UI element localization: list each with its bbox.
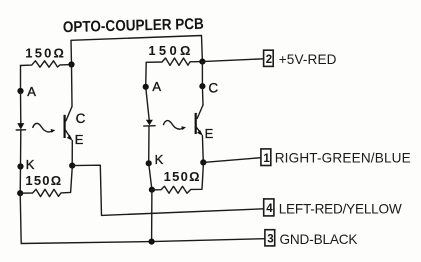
node K (right circuit)	[146, 160, 152, 166]
node junction dot (K branch / R4 left, right circuit)	[149, 187, 155, 193]
emitter lead with arrow	[196, 127, 201, 134]
wire node K to R4	[149, 163, 152, 189]
svg-text:RIGHT-GREEN/BLUE: RIGHT-GREEN/BLUE	[275, 150, 411, 165]
wire left output to terminal 4	[72, 165, 264, 215]
svg-text:150Ω: 150Ω	[25, 173, 61, 188]
collector lead from +5V junction	[201, 62, 203, 87]
wire LED cathode to node K	[20, 130, 22, 167]
svg-text:LEFT-RED/YELLOW: LEFT-RED/YELLOW	[279, 201, 402, 216]
wire left branch to ground rail	[20, 193, 265, 243]
svg-text:150Ω: 150Ω	[148, 43, 190, 58]
wire left branch top (right circuit)	[145, 62, 148, 87]
wire right circuit bottom to ground rail	[151, 190, 153, 242]
wire node K to R2	[19, 167, 21, 194]
svg-text:3: 3	[267, 234, 273, 246]
light coupling arrow (right opto-coupler)	[164, 121, 187, 130]
svg-text:A: A	[27, 84, 36, 99]
svg-text:4: 4	[266, 203, 273, 215]
svg-text:C: C	[208, 80, 218, 95]
resistor R1 150ohm (left circuit, top)	[21, 61, 72, 67]
node A (right circuit)	[143, 84, 149, 90]
svg-text:GND-BLACK: GND-BLACK	[280, 232, 358, 247]
wire emitter to output node (left circuit)	[71, 141, 73, 166]
resistor R3 150ohm (right circuit, top)	[146, 58, 202, 65]
wire +5V rail to terminal 2	[202, 59, 263, 62]
svg-text:2: 2	[266, 54, 272, 66]
svg-text:1: 1	[263, 153, 270, 165]
node A (left circuit)	[17, 88, 23, 94]
svg-text:E: E	[205, 126, 214, 141]
terminal 1 connector box	[261, 149, 271, 166]
wire title bracket connecting both top rails	[71, 36, 202, 65]
svg-text:E: E	[75, 132, 84, 147]
node junction dot (emitter/R2/output, left circuit)	[69, 163, 75, 169]
resistor R2 150ohm (left circuit, bottom)	[20, 168, 72, 197]
LED D1 (left opto-coupler)	[16, 123, 25, 130]
svg-text:150Ω: 150Ω	[164, 169, 200, 184]
svg-text:C: C	[76, 111, 86, 126]
svg-text:150Ω: 150Ω	[25, 46, 64, 61]
node junction dot (K branch / R2 left, left circuit)	[17, 190, 23, 196]
node K (left circuit)	[17, 163, 23, 169]
node junction dot (R1 right / +5V rail, left circuit)	[68, 61, 74, 67]
collector lead	[71, 65, 74, 107]
node junction dot (ground rail, right circuit)	[149, 239, 155, 245]
base bar	[63, 115, 65, 138]
svg-text:K: K	[26, 157, 35, 172]
wire left branch top (left circuit)	[20, 66, 22, 92]
wire emitter to output node (right circuit)	[201, 135, 204, 162]
svg-text:OPTO-COUPLER PCB: OPTO-COUPLER PCB	[63, 16, 204, 36]
svg-text:A: A	[152, 79, 161, 94]
svg-text:K: K	[155, 152, 164, 167]
wire node A to LED anode (right)	[146, 87, 150, 120]
wire right output to terminal 1	[203, 158, 261, 163]
svg-text:+5V-RED: +5V-RED	[279, 52, 337, 67]
base bar	[195, 113, 197, 134]
phototransistor Q1 (left opto-coupler)	[65, 65, 86, 147]
terminal 4 connector box	[264, 199, 274, 216]
LED D2 (right opto-coupler)	[144, 120, 155, 126]
terminal 2 connector box	[264, 50, 274, 66]
wire node A to LED anode	[20, 91, 22, 124]
terminal 3 connector box	[265, 230, 275, 246]
emitter lead with arrow	[65, 130, 71, 139]
node junction dot (emitter/R4/output, right circuit)	[200, 159, 206, 165]
node C (right circuit)	[199, 83, 205, 89]
resistor R4 150ohm (right circuit, bottom)	[152, 166, 203, 194]
node junction dot (R3 right / +5V rail, right circuit)	[199, 59, 205, 65]
phototransistor Q2 (right opto-coupler)	[196, 62, 219, 141]
wire LED cathode to node K (right)	[148, 126, 150, 163]
light coupling arrow (left opto-coupler)	[33, 123, 56, 132]
